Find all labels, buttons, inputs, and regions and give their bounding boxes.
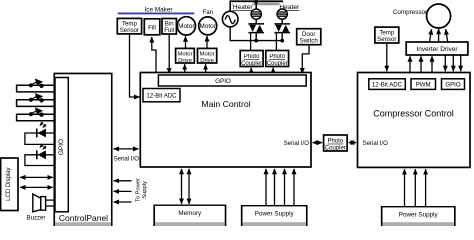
svg-text:GPIO: GPIO: [445, 82, 460, 89]
wire power supply 2 to compressor control a: [404, 169, 406, 207]
svg-text:Drive: Drive: [178, 58, 192, 64]
wire temp sensor to 12-bit ADC: [130, 34, 140, 97]
memory block: [154, 205, 225, 226]
wire temp sensor 2 to compressor control: [386, 43, 388, 71]
wire power supply to main control c: [284, 169, 286, 206]
svg-text:Switch: Switch: [300, 38, 319, 45]
junction dot on top rail: [254, 0, 258, 4]
label Compressor: [393, 9, 427, 16]
heater element 2: [277, 9, 287, 19]
svg-text:Drive: Drive: [200, 58, 214, 64]
LCD display block: [1, 158, 18, 211]
stub triac1 to bottom rail: [255, 33, 257, 41]
svg-text:Sensor: Sensor: [120, 27, 139, 34]
12-bit ADC block (main control): [143, 89, 180, 102]
wire motor drive 1 to ice maker motor: [185, 36, 187, 48]
gate wire triac2 to photo coupler 2: [275, 33, 277, 51]
wire power supply to main control d: [293, 169, 295, 206]
wire GPIO to motor drive 2: [205, 64, 207, 74]
svg-text:Photo: Photo: [327, 139, 343, 145]
svg-text:Coupler: Coupler: [325, 145, 346, 151]
label Heater 1: [233, 3, 254, 12]
buzzer LS1: [33, 194, 55, 212]
control panel block: [54, 74, 111, 227]
gate wire triac1 to photo coupler 1: [250, 33, 252, 51]
label Buzzer: [27, 215, 46, 221]
compressor control block U2: [358, 73, 471, 168]
shadow of top AC rail: [233, 2, 285, 5]
PWM block: [411, 79, 436, 90]
to power supply wire a: [114, 180, 132, 182]
svg-text:Motor: Motor: [178, 23, 195, 30]
wire PWM to inverter driver c: [431, 56, 433, 72]
wire inverter driver to compressor a: [430, 29, 432, 42]
wire GPIO to photo coupler 1: [250, 68, 252, 75]
label Ice Maker: [144, 7, 173, 14]
svg-text:Heater: Heater: [233, 4, 254, 11]
heater element 1: [251, 9, 261, 19]
power supply PS2 gray base: [383, 222, 454, 226]
svg-text:GPIO: GPIO: [58, 139, 65, 155]
wire power supply 2 to compressor control b: [414, 169, 416, 207]
wire GPIO to fill: [152, 37, 156, 72]
power supply PS1 gray base: [243, 222, 306, 226]
label Fan: [203, 10, 213, 16]
photo coupler PC2 (heater): [266, 51, 289, 67]
svg-text:To PowerSupply: To PowerSupply: [136, 178, 148, 202]
svg-text:Photo: Photo: [244, 54, 260, 60]
memory bus wire a: [181, 169, 183, 204]
svg-text:Memory: Memory: [178, 210, 202, 217]
junction dot bottom rail 1: [254, 39, 258, 43]
switch SW1: [17, 79, 55, 92]
wire inverter driver to compressor b: [438, 29, 440, 42]
power supply block PS2: [382, 207, 455, 226]
switch SW2: [17, 93, 55, 106]
bottom AC return rail: [230, 27, 282, 41]
svg-text:Coupler: Coupler: [241, 61, 262, 67]
top AC rail wire: [230, 1, 282, 12]
svg-text:Compressor Control: Compressor Control: [373, 108, 454, 118]
photo coupler PC1 (heater): [240, 51, 263, 67]
memory block gray base: [155, 222, 225, 226]
temp sensor TS1 (ice maker): [117, 18, 141, 34]
inverter driver block: [406, 42, 468, 55]
wire heater1 to triac1: [255, 19, 257, 24]
triac Q2: [274, 24, 290, 33]
svg-text:Motor: Motor: [200, 52, 215, 58]
ice maker bracket line (blue): [118, 12, 195, 14]
label serial I/O (compressor control): [363, 140, 389, 147]
svg-text:Serial I/O: Serial I/O: [114, 156, 140, 163]
stub top rail to heater 1: [255, 1, 257, 9]
svg-text:Power Supply: Power Supply: [255, 210, 295, 217]
wire inverter driver to GPIO c: [460, 55, 462, 71]
label to power supply: [136, 178, 148, 202]
svg-text:Fan: Fan: [203, 10, 213, 16]
switch SW3: [17, 107, 55, 120]
wire power supply to main control b: [274, 169, 276, 206]
svg-text:Buzzer: Buzzer: [27, 215, 46, 221]
junction dot bottom rail 2: [280, 39, 284, 43]
LED D2: [25, 144, 54, 166]
svg-text:LCD Display: LCD Display: [6, 168, 12, 201]
svg-text:Serial I/O: Serial I/O: [363, 140, 389, 147]
svg-text:Compressor: Compressor: [393, 9, 427, 16]
svg-text:Inverter Driver: Inverter Driver: [416, 46, 458, 53]
svg-text:Sensor: Sensor: [377, 36, 396, 43]
temp sensor TS2 (compressor): [375, 27, 399, 43]
svg-text:Motor: Motor: [200, 23, 217, 30]
svg-text:12-Bit ADC: 12-Bit ADC: [146, 93, 177, 100]
photo coupler PC3 (serial link): [324, 135, 348, 151]
motor drive 2 block: [198, 48, 217, 64]
label serial I/O (main control right): [284, 140, 310, 147]
LED D1: [25, 122, 54, 144]
AC source V1: [222, 11, 238, 27]
LCD data bus wire a: [20, 176, 53, 178]
svg-text:GPIO: GPIO: [215, 78, 231, 85]
svg-text:Motor: Motor: [177, 52, 192, 58]
bin full sensor block: [162, 19, 176, 35]
GPIO block (main control): [158, 75, 306, 86]
to power supply wire c: [114, 201, 132, 203]
svg-text:Power Supply: Power Supply: [399, 211, 439, 218]
to power supply wire b: [114, 190, 132, 192]
svg-text:Main Control: Main Control: [201, 99, 250, 109]
wire inverter driver to GPIO b: [452, 55, 454, 71]
wire GPIO to motor drive 1: [184, 64, 186, 74]
wire power supply 2 to compressor control c: [425, 169, 427, 207]
svg-text:PWM: PWM: [416, 82, 431, 89]
compressor motor M3: [427, 4, 451, 28]
GPIO block (compressor control): [442, 79, 465, 90]
ice maker motor M1: [177, 17, 195, 35]
wire bin full to GPIO: [168, 34, 170, 73]
svg-text:Fill: Fill: [148, 24, 156, 31]
power supply block PS1: [242, 206, 307, 226]
wire GPIO to photo coupler 2: [272, 68, 274, 75]
label serial I/O (control panel link): [114, 156, 140, 163]
LCD data bus wire b: [20, 186, 53, 188]
label Heater 2: [279, 3, 300, 12]
wire PWM to inverter driver b: [420, 56, 422, 72]
wire inverter driver to compressor c: [446, 29, 448, 42]
fan motor M2: [199, 17, 217, 35]
triac Q1: [248, 24, 264, 33]
stub triac2 to bottom rail: [281, 33, 283, 41]
GPIO block (control panel): [55, 78, 68, 212]
wire motor drive 2 to fan motor: [206, 36, 208, 48]
svg-text:Full: Full: [164, 27, 174, 34]
motor drive 1 block: [176, 48, 195, 64]
wire heater2 to triac2: [281, 19, 283, 24]
control panel gray base: [55, 222, 111, 226]
door switch block: [297, 29, 321, 45]
svg-text:Photo: Photo: [269, 54, 285, 60]
wire inverter driver to GPIO a: [444, 55, 446, 71]
wire door switch to GPIO: [302, 45, 309, 74]
12-bit ADC block (compressor control): [369, 79, 406, 90]
wire photo coupler 3 to compressor control: [349, 142, 356, 144]
wire main control to photo coupler 3: [313, 142, 323, 144]
svg-text:ControlPanel: ControlPanel: [59, 213, 108, 223]
svg-text:12-Bit ADC: 12-Bit ADC: [372, 82, 403, 89]
svg-text:Serial I/O: Serial I/O: [284, 140, 310, 147]
svg-text:Coupler: Coupler: [267, 61, 288, 67]
wire PWM to inverter driver a: [409, 56, 411, 72]
main control block U1: [140, 73, 311, 168]
wire power supply to main control a: [265, 169, 267, 206]
fill actuator block: [144, 19, 160, 35]
serial I/O wire control panel to main control: [114, 148, 139, 150]
memory bus wire b: [188, 169, 190, 204]
